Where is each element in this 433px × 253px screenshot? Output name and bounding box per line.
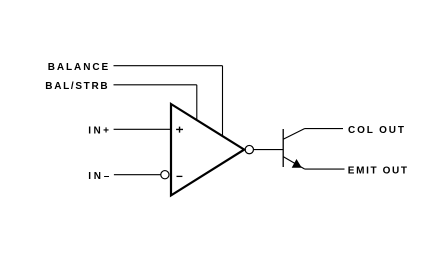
wire IN+ (114, 128, 171, 130)
svg-text:EMIT OUT: EMIT OUT (348, 165, 407, 176)
svg-text:COL OUT: COL OUT (348, 125, 404, 136)
wire COL OUT (305, 128, 344, 130)
wire BALANCE horizontal (114, 65, 223, 67)
wire output bubble to transistor base (254, 149, 284, 151)
wire BAL/STRB horizontal (114, 84, 197, 86)
wire IN- (114, 174, 161, 176)
transistor Q1 collector lead (283, 129, 304, 140)
transistor Q1 emitter arrow (292, 159, 302, 168)
wire BAL/STRB vertical drop to op-amp (196, 85, 198, 120)
wire EMIT OUT (305, 168, 345, 170)
svg-text:BALANCE: BALANCE (48, 62, 109, 73)
transistor Q1 base bar (282, 129, 284, 167)
op-amp U1 triangle (171, 104, 244, 195)
op-amp minus input marker (177, 175, 183, 177)
op-amp output inversion bubble (245, 145, 253, 153)
inversion bubble on IN- input (161, 171, 169, 179)
transistor Q1 emitter lead (283, 157, 305, 170)
op-amp plus input marker (176, 127, 183, 133)
svg-text:BAL/STRB: BAL/STRB (45, 81, 107, 92)
wire BALANCE vertical drop to op-amp (222, 66, 224, 137)
